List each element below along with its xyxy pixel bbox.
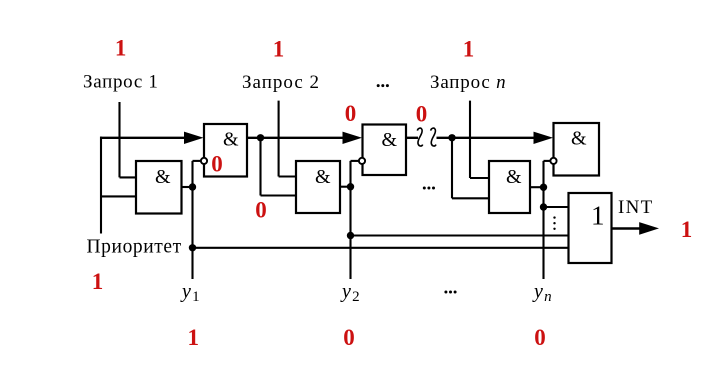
arrowhead INT output xyxy=(639,222,659,235)
svg-text:0: 0 xyxy=(211,151,223,176)
node junction y2 bus xyxy=(347,232,354,239)
wire INT output xyxy=(612,227,642,229)
svg-text:1: 1 xyxy=(681,217,693,242)
svg-text:0: 0 xyxy=(416,102,428,127)
wire y2 bus to OR gate xyxy=(351,234,569,236)
inhibit bubble Dn.2 xyxy=(550,158,556,164)
inhibit bubble D2.2 xyxy=(359,158,365,164)
inhibit bubble D1.2 xyxy=(201,158,207,164)
ellipsis top between request labels xyxy=(377,84,389,87)
and-gate D2.1 xyxy=(296,161,340,213)
node junction stage1 output xyxy=(257,134,264,141)
and-gate Dn.1 xyxy=(489,161,530,213)
svg-text:INT: INT xyxy=(618,197,654,218)
or-gate U1 xyxy=(569,193,612,263)
svg-text:y1: y1 xyxy=(180,281,200,306)
wire stage1 priority-out vertical xyxy=(259,138,261,196)
and-gate D1.2 xyxy=(204,124,247,177)
svg-text:Запрос 2: Запрос 2 xyxy=(242,72,320,93)
wire Запрос n vertical xyxy=(469,101,471,178)
svg-text:&: & xyxy=(223,129,239,151)
wire y1 to inhibit bubble D1.2 xyxy=(193,160,201,162)
wire stage priority vertical into Dn.1 xyxy=(451,138,453,199)
ellipsis middle between stages xyxy=(423,187,435,190)
node junction yn output xyxy=(540,184,547,191)
ellipsis bottom between y labels xyxy=(444,291,456,294)
and-gate Dn.2 xyxy=(554,123,600,176)
svg-text:Запрос n: Запрос n xyxy=(430,72,506,93)
node junction yn or input xyxy=(540,203,547,210)
svg-text:y2: y2 xyxy=(340,281,360,306)
wire D1.1 output xyxy=(182,186,193,188)
wire break to junction and to Dn.2 xyxy=(437,137,536,139)
break squiggle on chain wire xyxy=(417,128,436,146)
svg-text:Приоритет: Приоритет xyxy=(87,237,182,258)
arrowhead into Dn.2 xyxy=(534,132,554,144)
and-gate D2.2 xyxy=(363,125,407,176)
wire priority vertical riser xyxy=(100,137,102,234)
svg-text:&: & xyxy=(155,166,171,188)
and-gate D1.1 xyxy=(136,161,182,214)
svg-text:1: 1 xyxy=(115,36,127,61)
svg-text:&: & xyxy=(382,129,398,151)
wire priority feed to gate D1.2 xyxy=(100,137,186,139)
wire stage1 priority-out to D2.1 lower input xyxy=(261,194,297,196)
svg-text:Запрос 1: Запрос 1 xyxy=(83,72,159,93)
wire D2.1 output xyxy=(340,186,351,188)
wire chain D1.2 output to D2.2 xyxy=(247,137,345,139)
node junction y1 bus xyxy=(189,244,196,251)
wire priority branch to D1.1 lower input xyxy=(101,195,136,197)
svg-text:0: 0 xyxy=(345,101,357,126)
wire yn input to OR gate xyxy=(544,206,569,208)
svg-text:1: 1 xyxy=(463,36,475,61)
svg-text:&: & xyxy=(315,166,331,188)
svg-text:1: 1 xyxy=(591,201,605,231)
wire Запрос 2 into D2.1 top input xyxy=(279,175,296,177)
svg-text:0: 0 xyxy=(255,198,267,223)
svg-text:1: 1 xyxy=(187,325,199,350)
wire y1 vertical xyxy=(191,161,193,279)
svg-text:1: 1 xyxy=(273,36,285,61)
svg-text:0: 0 xyxy=(534,325,546,350)
svg-text:0: 0 xyxy=(343,325,355,350)
wire priority into Dn.1 lower input xyxy=(452,197,489,199)
node junction y1 output xyxy=(189,183,196,190)
wire y2 vertical xyxy=(349,161,351,279)
arrowhead into D2.2 xyxy=(343,132,363,144)
wire y1 bus to OR gate xyxy=(193,247,569,249)
wire Запрос n into Dn.1 top input xyxy=(470,177,489,179)
wire yn vertical xyxy=(542,161,544,279)
node junction stage2 priority out xyxy=(448,134,455,141)
node junction y2 output xyxy=(347,183,354,190)
wire Запрос 1 vertical xyxy=(118,102,120,177)
wire yn to inhibit bubble Dn.2 xyxy=(544,160,551,162)
arrowhead into D1.2 xyxy=(184,132,204,144)
wire Запрос 2 vertical xyxy=(278,101,280,177)
wire Dn.1 output xyxy=(530,186,544,188)
svg-text:&: & xyxy=(506,166,522,188)
svg-text:yn: yn xyxy=(532,281,552,306)
svg-text:&: & xyxy=(571,128,587,150)
svg-text:1: 1 xyxy=(92,269,104,294)
wire y2 to inhibit bubble D2.2 xyxy=(351,160,359,162)
vertical ellipsis OR inputs xyxy=(553,216,555,230)
wire D2.2 output to break xyxy=(406,137,418,139)
wire Запрос 1 into D1.1 top input xyxy=(120,176,137,178)
